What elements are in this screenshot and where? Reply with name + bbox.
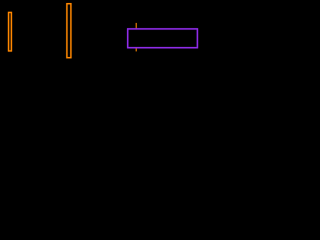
component B2 (tall orange vertical bar / plate outline) (67, 4, 71, 58)
wire (top lead into box U1) (135, 23, 137, 29)
component B1 (short orange vertical bar / plate outline) (9, 12, 12, 51)
wire (bottom lead out of box U1) (135, 48, 137, 52)
component box U1 (purple outlined rectangle) (128, 29, 198, 48)
